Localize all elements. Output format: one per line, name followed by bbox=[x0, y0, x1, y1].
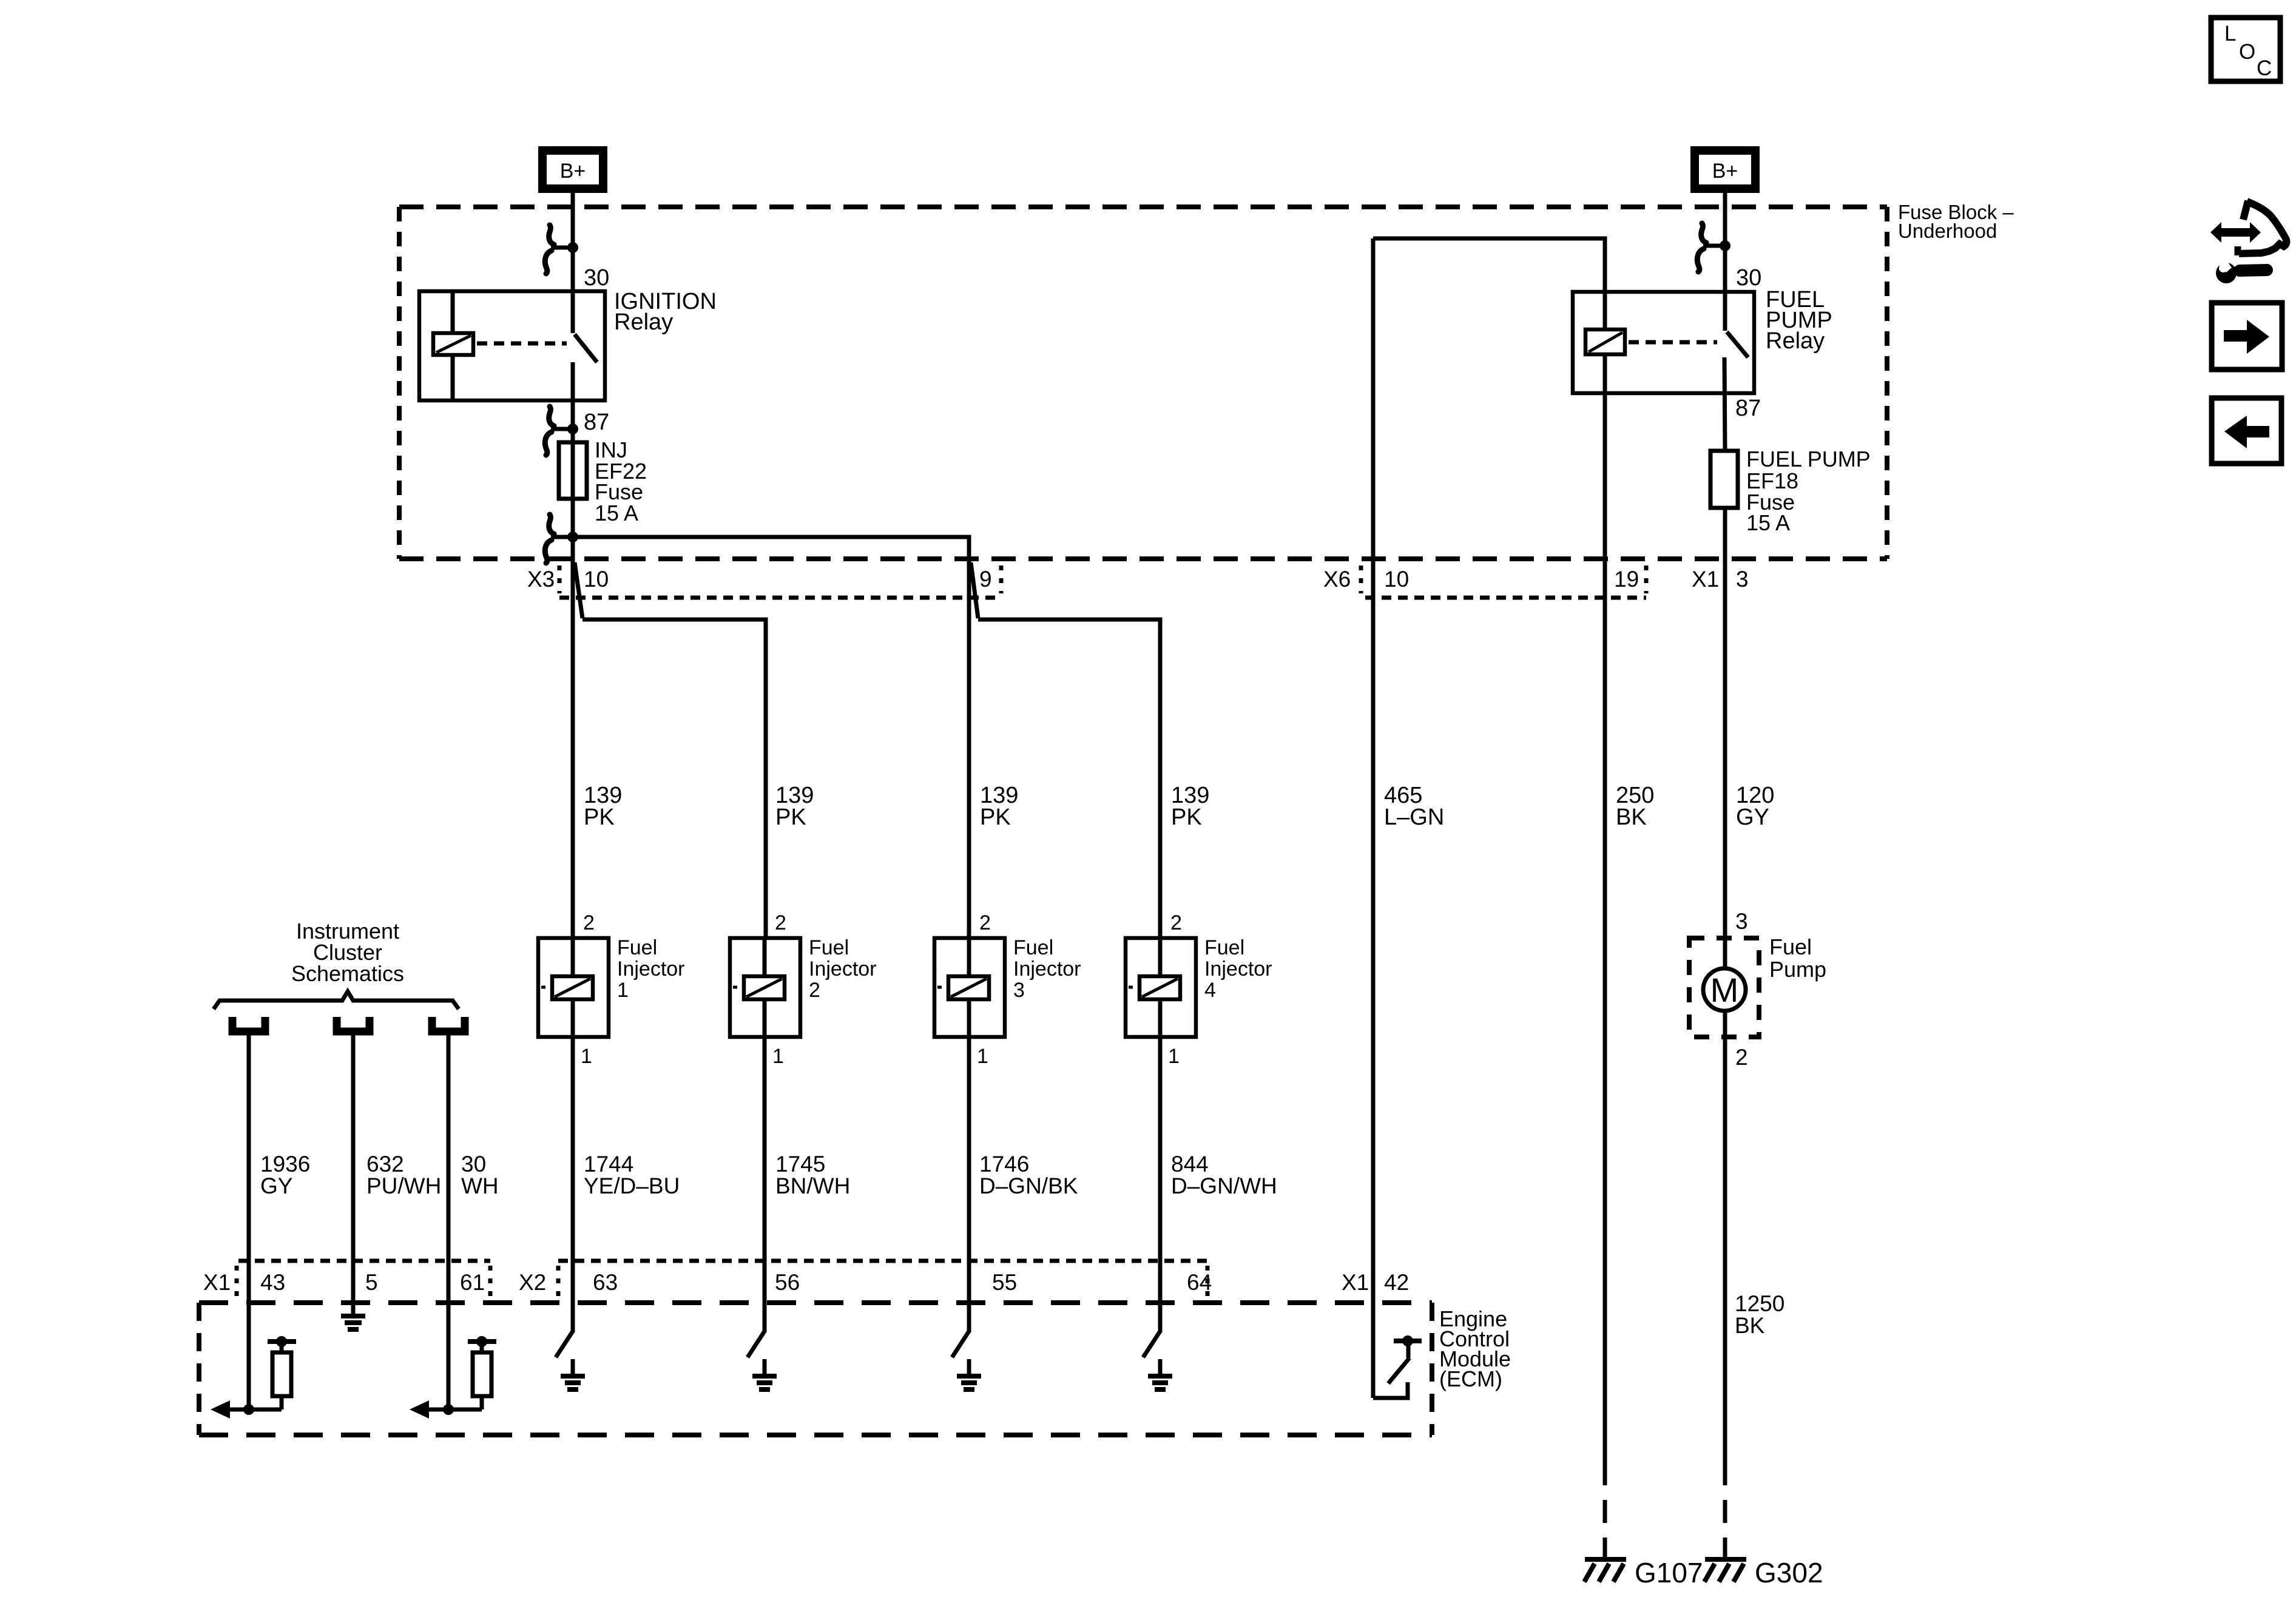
svg-text:D–GN/BK: D–GN/BK bbox=[979, 1173, 1078, 1198]
fuel injector 3 bbox=[934, 938, 1005, 1037]
ECM label bbox=[1439, 1306, 1511, 1391]
back arrow box bbox=[2212, 398, 2281, 464]
ECM injector driver switch bbox=[952, 1331, 969, 1357]
svg-text:2: 2 bbox=[775, 911, 786, 934]
svg-text:BK: BK bbox=[1616, 805, 1647, 830]
svg-text:3: 3 bbox=[1013, 979, 1025, 1002]
wire label 844 D–GN/WH bbox=[1171, 1152, 1277, 1198]
svg-text:B+: B+ bbox=[560, 160, 586, 183]
svg-text:GY: GY bbox=[260, 1173, 292, 1198]
wire: B+ right down to fuel pump relay pin 30 bbox=[1723, 189, 1727, 331]
wire 1936 GY bbox=[247, 1035, 251, 1409]
svg-text:X2: X2 bbox=[519, 1270, 546, 1295]
svg-text:PK: PK bbox=[775, 805, 806, 830]
wire: 250 BK relay coil ground to G107 bbox=[1603, 393, 1607, 1485]
svg-text:2: 2 bbox=[979, 911, 991, 934]
FUEL PUMP EF18 fuse 15A bbox=[1710, 451, 1738, 508]
svg-text:PK: PK bbox=[584, 805, 615, 830]
svg-text:19: 19 bbox=[1614, 567, 1639, 592]
svg-text:1: 1 bbox=[617, 979, 629, 1002]
svg-text:G107: G107 bbox=[1635, 1557, 1703, 1588]
junction node below INJ fuse bbox=[551, 535, 573, 539]
svg-text:43: 43 bbox=[260, 1270, 285, 1295]
svg-text:2: 2 bbox=[809, 979, 820, 1002]
wire label 1746 D–GN/BK bbox=[979, 1152, 1078, 1198]
wire label 1745 BN/WH bbox=[775, 1152, 850, 1198]
ground G302 bbox=[1704, 1557, 1823, 1588]
X6 connector box bbox=[1361, 565, 1646, 598]
svg-text:9: 9 bbox=[979, 567, 992, 592]
svg-text:1744: 1744 bbox=[584, 1152, 633, 1176]
relay coil feed divider bbox=[451, 293, 455, 334]
svg-text:1746: 1746 bbox=[979, 1152, 1029, 1176]
X3 connector box bbox=[559, 565, 1001, 598]
ECM internal ground (pin 5) bbox=[341, 1316, 365, 1329]
svg-text:PK: PK bbox=[980, 805, 1011, 830]
svg-text:64: 64 bbox=[1187, 1270, 1212, 1295]
svg-text:4: 4 bbox=[1204, 979, 1216, 1002]
wire: branch from fuse junction to injectors 3/4 feed bbox=[573, 537, 969, 938]
relay coil bbox=[433, 333, 473, 355]
svg-text:(ECM): (ECM) bbox=[1439, 1366, 1502, 1391]
fuel injector 4 bbox=[1126, 938, 1196, 1037]
ECM relay driver switch at X1-42 bbox=[1373, 1335, 1422, 1398]
wire label 139 PK bbox=[584, 783, 622, 830]
ECM driver ground bbox=[1148, 1359, 1172, 1389]
wire label 139 PK bbox=[775, 783, 814, 830]
wire label 1936 GY bbox=[260, 1152, 310, 1198]
wire: injector 4 low side to ECM bbox=[1158, 1037, 1163, 1332]
FUEL PUMP Relay label bbox=[1766, 287, 1832, 354]
fuel injector 1 label bbox=[617, 936, 685, 1002]
svg-text:1: 1 bbox=[1168, 1045, 1180, 1068]
splice diagonal at X3 pin 9 feeding injector 4 bbox=[971, 562, 978, 618]
svg-text:X3: X3 bbox=[527, 567, 555, 592]
ECM injector driver switch bbox=[1143, 1331, 1160, 1357]
forward arrow box bbox=[2212, 303, 2282, 370]
brace under instrument cluster label bbox=[214, 991, 459, 1009]
svg-text:M: M bbox=[1710, 971, 1739, 1009]
ECM pull-up resistor bbox=[268, 1336, 296, 1409]
svg-text:1: 1 bbox=[772, 1045, 784, 1068]
connector clip right B+ wire bbox=[1703, 244, 1725, 248]
wire label 1744 YE/D–BU bbox=[584, 1152, 680, 1198]
svg-text:Injector: Injector bbox=[1013, 957, 1081, 981]
FUEL PUMP relay box bbox=[1573, 292, 1754, 393]
ECM injector driver switch bbox=[556, 1331, 573, 1357]
svg-text:Pump: Pump bbox=[1769, 957, 1826, 982]
svg-text:X6: X6 bbox=[1323, 567, 1351, 592]
svg-text:Fuel: Fuel bbox=[809, 936, 849, 959]
svg-text:X1: X1 bbox=[1692, 567, 1719, 592]
svg-text:B+: B+ bbox=[1712, 160, 1738, 183]
Fuse Block - Underhood label bbox=[1898, 201, 2014, 242]
svg-text:5: 5 bbox=[365, 1270, 378, 1295]
fuel injector 3 label bbox=[1013, 936, 1081, 1002]
svg-text:55: 55 bbox=[992, 1270, 1017, 1295]
svg-text:87: 87 bbox=[584, 410, 609, 435]
svg-text:30: 30 bbox=[1736, 265, 1761, 291]
svg-text:PK: PK bbox=[1171, 805, 1202, 830]
svg-text:BN/WH: BN/WH bbox=[775, 1173, 850, 1198]
fuel pump relay coil feed from X6-10 (465 L-GN) bbox=[1373, 238, 1605, 329]
wire label 139 PK bbox=[980, 783, 1018, 830]
wire label 139 PK bbox=[1171, 783, 1209, 830]
Fuse Block - Underhood box bbox=[399, 207, 1887, 559]
ground G107 bbox=[1584, 1557, 1703, 1588]
INJ EF22 fuse 15A bbox=[559, 442, 587, 499]
ECM driver ground bbox=[752, 1359, 777, 1389]
svg-text:X1: X1 bbox=[203, 1270, 231, 1295]
fuel pump motor M bbox=[1703, 968, 1746, 1011]
wire 632 PU/WH bbox=[351, 1035, 356, 1316]
dashed wire to G302 bbox=[1723, 1500, 1727, 1557]
coil-switch dashed link bbox=[1629, 340, 1717, 345]
svg-text:Injector: Injector bbox=[809, 957, 877, 981]
Fuel Pump label bbox=[1769, 934, 1826, 982]
svg-text:56: 56 bbox=[775, 1270, 800, 1295]
instrument cluster terminal bbox=[337, 1017, 370, 1031]
svg-text:2: 2 bbox=[1735, 1045, 1748, 1070]
svg-text:844: 844 bbox=[1171, 1152, 1209, 1176]
wire: injector 1 low side to ECM bbox=[571, 1037, 575, 1332]
Engine Control Module (ECM) box bbox=[199, 1303, 1432, 1435]
wire label 250 BK bbox=[1616, 783, 1654, 830]
fuel injector 4 label bbox=[1204, 936, 1272, 1002]
svg-text:PU/WH: PU/WH bbox=[366, 1173, 441, 1198]
B+ battery feed terminal (right) bbox=[1695, 150, 1755, 189]
wire label 120 GY bbox=[1736, 783, 1774, 830]
svg-text:Injector: Injector bbox=[617, 957, 685, 981]
wire label 30 WH bbox=[461, 1152, 499, 1198]
svg-text:42: 42 bbox=[1384, 1270, 1409, 1295]
wire: EF18 fuse through X1-3 to fuel pump (120 GY) bbox=[1723, 508, 1727, 969]
Instrument Cluster Schematics label bbox=[291, 919, 404, 986]
svg-text:87: 87 bbox=[1735, 396, 1761, 421]
svg-text:Fuel: Fuel bbox=[1769, 934, 1812, 959]
svg-text:2: 2 bbox=[583, 911, 595, 934]
svg-text:G302: G302 bbox=[1755, 1557, 1823, 1588]
wire: injector 2 low side to ECM bbox=[763, 1037, 767, 1332]
wire label 1250 BK bbox=[1735, 1291, 1784, 1338]
svg-text:3: 3 bbox=[1736, 567, 1749, 592]
fuel injector 1 bbox=[538, 938, 609, 1037]
svg-text:BK: BK bbox=[1735, 1313, 1765, 1338]
wire: relay 87 to EF18 fuse bbox=[1724, 357, 1725, 451]
svg-text:O: O bbox=[2239, 40, 2255, 64]
splice diagonal at X3 pin 10 feeding injector 2 bbox=[575, 562, 582, 618]
svg-text:Underhood: Underhood bbox=[1898, 220, 1997, 242]
wire label 465 L-GN bbox=[1384, 783, 1444, 830]
coil-switch dashed link bbox=[477, 342, 567, 346]
svg-text:WH: WH bbox=[461, 1173, 499, 1198]
wire: B+ left down to ignition relay pin 30 bbox=[571, 189, 575, 333]
wire: relay 87 down to INJ fuse bbox=[571, 362, 575, 537]
svg-text:1745: 1745 bbox=[775, 1152, 825, 1176]
B+ battery feed terminal (left) bbox=[542, 150, 603, 189]
svg-text:1: 1 bbox=[977, 1045, 988, 1068]
instrument cluster terminal bbox=[432, 1017, 465, 1031]
svg-text:2: 2 bbox=[1170, 911, 1182, 934]
svg-text:10: 10 bbox=[584, 567, 609, 592]
fuel pump relay switch arm bbox=[1727, 332, 1748, 357]
svg-text:Fuel: Fuel bbox=[617, 936, 657, 959]
svg-text:Relay: Relay bbox=[614, 309, 673, 335]
svg-text:D–GN/WH: D–GN/WH bbox=[1171, 1173, 1277, 1198]
ECM pull-up resistor bbox=[468, 1336, 496, 1409]
svg-text:X1: X1 bbox=[1342, 1270, 1369, 1295]
svg-text:15 A: 15 A bbox=[1746, 510, 1790, 535]
svg-text:632: 632 bbox=[366, 1152, 404, 1176]
instrument cluster terminal bbox=[232, 1017, 265, 1031]
svg-text:C: C bbox=[2257, 56, 2272, 80]
svg-text:10: 10 bbox=[1384, 567, 1409, 592]
LOC reference box bbox=[2211, 18, 2280, 81]
svg-text:15 A: 15 A bbox=[595, 501, 638, 525]
wire 30 WH bbox=[447, 1035, 451, 1409]
wire: 465 L-GN relay control to ECM X1-42 bbox=[1371, 238, 1376, 1398]
ECM internal signal arrow bbox=[410, 1400, 482, 1419]
svg-text:L–GN: L–GN bbox=[1384, 805, 1444, 830]
svg-text:1250: 1250 bbox=[1735, 1291, 1784, 1316]
ECM driver ground bbox=[561, 1359, 585, 1389]
svg-text:Schematics: Schematics bbox=[291, 961, 404, 986]
wire: injector 3 low side to ECM bbox=[967, 1037, 971, 1332]
svg-text:Fuel: Fuel bbox=[1013, 936, 1053, 959]
svg-text:63: 63 bbox=[593, 1270, 618, 1295]
svg-text:GY: GY bbox=[1736, 805, 1769, 830]
X2 connector box (ECM injectors side) bbox=[558, 1261, 1207, 1298]
wire label 632 PU/WH bbox=[366, 1152, 441, 1198]
connector clip between 87 and fuse bbox=[551, 427, 573, 431]
fuel pump relay coil bbox=[1585, 329, 1625, 354]
connector clip at top left wire bbox=[551, 246, 573, 250]
svg-text:FUEL PUMP: FUEL PUMP bbox=[1746, 447, 1871, 471]
fuel injector 2 bbox=[730, 938, 800, 1037]
fuel pump dashed box bbox=[1689, 938, 1759, 1037]
svg-text:YE/D–BU: YE/D–BU bbox=[584, 1173, 680, 1198]
IGNITION Relay box bbox=[419, 291, 605, 400]
svg-text:3: 3 bbox=[1735, 909, 1748, 934]
svg-text:1936: 1936 bbox=[260, 1152, 310, 1176]
svg-text:1: 1 bbox=[581, 1045, 592, 1068]
fuel injector 2 label bbox=[809, 936, 877, 1002]
svg-text:Relay: Relay bbox=[1766, 328, 1825, 354]
svg-text:30: 30 bbox=[584, 265, 609, 291]
ECM injector driver switch bbox=[748, 1331, 765, 1357]
diagnostic icon (double arrow, part outline, wrench) bbox=[2210, 201, 2286, 283]
wire: injector 1 feed (139 PK) bbox=[571, 537, 575, 938]
svg-text:30: 30 bbox=[461, 1152, 486, 1176]
ECM driver ground bbox=[957, 1359, 981, 1389]
relay switch arm (pin 30 to 87) bbox=[575, 334, 597, 362]
svg-text:Fuel: Fuel bbox=[1204, 936, 1244, 959]
ECM internal signal arrow bbox=[211, 1400, 282, 1419]
dashed wire to G107 bbox=[1603, 1500, 1607, 1557]
X1 connector box (ECM instrument cluster side) bbox=[237, 1261, 490, 1298]
wire: fuel pump to G302 (1250 BK) bbox=[1723, 1011, 1727, 1485]
svg-text:Injector: Injector bbox=[1204, 957, 1272, 981]
svg-text:L: L bbox=[2224, 22, 2236, 46]
svg-text:61: 61 bbox=[460, 1270, 485, 1295]
